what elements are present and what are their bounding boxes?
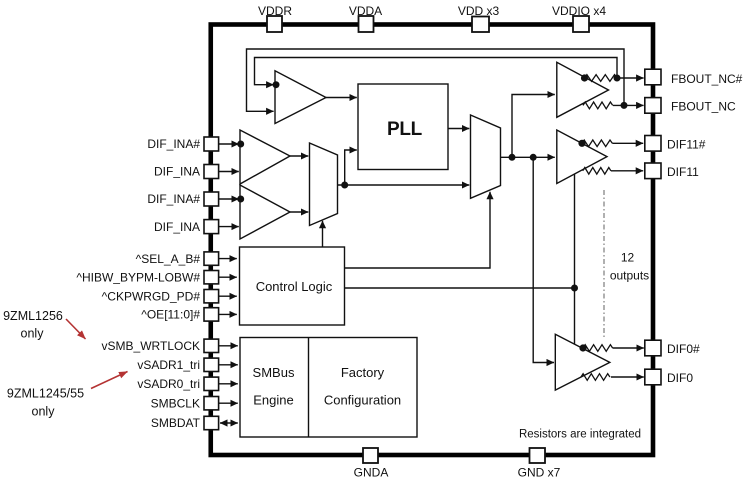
pin DIF11#	[645, 136, 706, 152]
pin SMBDAT	[151, 416, 219, 430]
node FBOUT_NC feedback junction	[621, 102, 628, 109]
svg-text:SMBus: SMBus	[253, 365, 295, 380]
wire branch to DIF0 buffer	[533, 157, 554, 362]
svg-text:^SEL_A_B#: ^SEL_A_B#	[136, 252, 201, 266]
svg-text:^CKPWRGD_PD#: ^CKPWRGD_PD#	[102, 289, 201, 303]
pin DIF0	[645, 369, 694, 385]
node clock branch FBOUT	[509, 154, 516, 161]
pin DIF0#	[645, 340, 700, 356]
resistor DIF11	[583, 168, 611, 175]
svg-text:Configuration: Configuration	[324, 393, 401, 408]
pin CKPWRGD_PD#	[102, 289, 219, 303]
svg-text:Resistors are integrated: Resistors are integrated	[519, 429, 641, 441]
pin DIF11	[645, 163, 699, 179]
pin VDDIO x4	[552, 4, 606, 32]
dashed line 12 outputs	[603, 190, 605, 338]
resistor DIF0#	[583, 345, 613, 352]
op-amp FBOUT output buffer	[557, 62, 609, 117]
wire red arrow to vSMB_WRTLOCK	[66, 319, 86, 339]
resistor DIF0	[581, 374, 610, 381]
wire FBOUT_NC# to pin	[617, 77, 644, 79]
wire pin CKPWRGD_PD#	[219, 295, 237, 297]
wire pin HIBW_BYPM-LOBW#	[219, 276, 237, 278]
svg-text:DIF_INA#: DIF_INA#	[147, 192, 200, 206]
wire pin vSMB_WRTLOCK	[219, 345, 238, 347]
pin FBOUT_NC#	[645, 69, 743, 86]
pin SEL_A_B#	[136, 252, 219, 266]
svg-text:FBOUT_NC: FBOUT_NC	[671, 99, 736, 113]
wire mux output bypass to output mux	[345, 184, 470, 186]
svg-text:only: only	[21, 327, 45, 341]
node mux output branch	[341, 182, 348, 189]
svg-text:vSMB_WRTLOCK: vSMB_WRTLOCK	[102, 339, 200, 353]
op-amp DIF0 output buffer	[555, 334, 610, 390]
svg-text:DIF_INA: DIF_INA	[154, 165, 200, 179]
control logic block	[240, 247, 345, 325]
wire red arrow to vSADR1_tri	[91, 372, 128, 389]
wire pin DIF_INA1 to buffer	[219, 171, 239, 173]
pin SMBCLK	[151, 396, 219, 410]
label 9ZML1256 only	[3, 309, 63, 341]
svg-text:Control Logic: Control Logic	[256, 279, 333, 294]
svg-text:Engine: Engine	[253, 393, 293, 408]
wire PLL output to mux	[448, 128, 469, 130]
op-amp input buffer B	[240, 185, 290, 239]
node buffer B inverting input	[237, 196, 244, 203]
wire pin SEL_A_B#	[219, 258, 237, 260]
pin HIBW_BYPM-LOBW#	[76, 270, 218, 284]
pin vSADR0_tri	[137, 377, 218, 391]
pin DIF_INA2	[154, 220, 219, 234]
wire pin DIF_INA#1 to buffer	[219, 143, 239, 145]
node clock branch DIF0	[530, 154, 537, 161]
PLL block U1	[358, 84, 448, 170]
wire pin OE[11:0]#	[219, 313, 237, 315]
pin DIF_INA#2	[147, 192, 218, 206]
pin VDDR	[258, 4, 292, 32]
wire control logic to output mux select	[344, 192, 490, 268]
wire feedback buffer to PLL	[326, 97, 357, 99]
pin GNDA	[354, 448, 389, 480]
wire FBOUT_NC to pin	[613, 104, 644, 106]
node feedback buffer input	[273, 81, 280, 88]
wire DIF11# to pin	[612, 142, 643, 144]
node output enable junction	[571, 285, 578, 292]
op-amp DIF11 output buffer	[557, 130, 607, 184]
mux output select M2	[471, 115, 501, 198]
svg-text:DIF0#: DIF0#	[667, 342, 700, 356]
svg-text:SMBCLK: SMBCLK	[151, 396, 200, 410]
wire DIF11 to pin	[611, 170, 643, 172]
svg-text:vSADR0_tri: vSADR0_tri	[137, 377, 200, 391]
pin VDDA	[349, 4, 382, 32]
pin FBOUT_NC	[645, 98, 736, 114]
resistor FBOUT_NC	[583, 102, 613, 109]
wire buffer B to input mux	[290, 211, 308, 213]
wire DIF0# to pin	[613, 347, 644, 349]
mux input select M1	[310, 143, 338, 226]
svg-text:Factory: Factory	[341, 365, 385, 380]
svg-text:DIF_INA#: DIF_INA#	[147, 137, 200, 151]
svg-text:GNDA: GNDA	[354, 466, 389, 480]
wire output enable vertical	[574, 174, 576, 345]
svg-text:^OE[11:0]#: ^OE[11:0]#	[141, 308, 200, 322]
svg-text:VDDR: VDDR	[258, 4, 292, 18]
wire output enable from control logic	[344, 287, 575, 289]
svg-text:VDDIO x4: VDDIO x4	[552, 4, 606, 18]
wire pin SMBDAT bidirectional	[220, 422, 238, 424]
wire buffer A to input mux	[290, 155, 308, 157]
pin DIF_INA1	[154, 165, 219, 179]
svg-text:9ZML1256: 9ZML1256	[3, 309, 63, 323]
pin vSADR1_tri	[137, 358, 218, 372]
node DIF0 buffer tap	[579, 344, 586, 351]
wire feedback inner loop	[255, 58, 618, 85]
svg-text:FBOUT_NC#: FBOUT_NC#	[671, 72, 743, 86]
wire DIF0 to pin	[611, 376, 644, 378]
node FBOUT buffer tap	[581, 74, 588, 81]
wire pin vSADR0_tri	[219, 383, 238, 385]
label 9ZML1245/55 only	[7, 387, 84, 419]
wire pin SMBCLK	[219, 402, 238, 404]
svg-text:SMBDAT: SMBDAT	[151, 416, 201, 430]
chip outline border	[211, 25, 653, 456]
wire branch to FBOUT buffer	[512, 95, 555, 158]
wire pin vSADR1_tri	[219, 364, 238, 366]
wire pin DIF_INA2 to buffer	[219, 226, 239, 228]
wire output mux to DIF11 buffer	[501, 156, 555, 158]
label 12 outputs	[610, 251, 649, 283]
wire feedback outer loop	[247, 49, 625, 111]
pin VDD x3	[458, 4, 500, 32]
svg-text:DIF_INA: DIF_INA	[154, 220, 200, 234]
pin vSMB_WRTLOCK	[102, 339, 219, 353]
wire mux output to PLL ref	[338, 150, 357, 185]
svg-text:GND x7: GND x7	[518, 466, 561, 480]
svg-text:VDDA: VDDA	[349, 4, 382, 18]
resistor DIF11#	[582, 140, 612, 147]
svg-text:^HIBW_BYPM-LOBW#: ^HIBW_BYPM-LOBW#	[76, 270, 200, 284]
op-amp feedback buffer	[275, 71, 326, 124]
svg-text:12: 12	[621, 251, 635, 265]
svg-text:PLL: PLL	[387, 119, 423, 140]
svg-text:only: only	[32, 405, 56, 419]
svg-text:DIF11: DIF11	[667, 165, 699, 179]
svg-text:outputs: outputs	[610, 269, 649, 283]
pin GND x7	[518, 448, 561, 480]
svg-text:vSADR1_tri: vSADR1_tri	[137, 358, 200, 372]
svg-text:DIF11#: DIF11#	[667, 137, 706, 151]
svg-text:DIF0: DIF0	[667, 371, 693, 385]
wire pin DIF_INA#2 to buffer	[219, 198, 239, 200]
resistor FBOUT_NC#	[585, 75, 617, 82]
pin DIF_INA#1	[147, 137, 218, 151]
node FBOUT_NC# feedback junction	[614, 75, 621, 82]
svg-text:VDD x3: VDD x3	[458, 4, 500, 18]
node buffer A inverting input	[237, 141, 244, 148]
node DIF11 buffer tap	[578, 140, 585, 147]
SMBus engine and factory configuration block	[240, 338, 417, 438]
op-amp input buffer A	[240, 130, 290, 184]
svg-text:9ZML1245/55: 9ZML1245/55	[7, 387, 84, 401]
wire input mux select	[322, 221, 324, 247]
pin OE[11:0]#	[141, 308, 218, 322]
